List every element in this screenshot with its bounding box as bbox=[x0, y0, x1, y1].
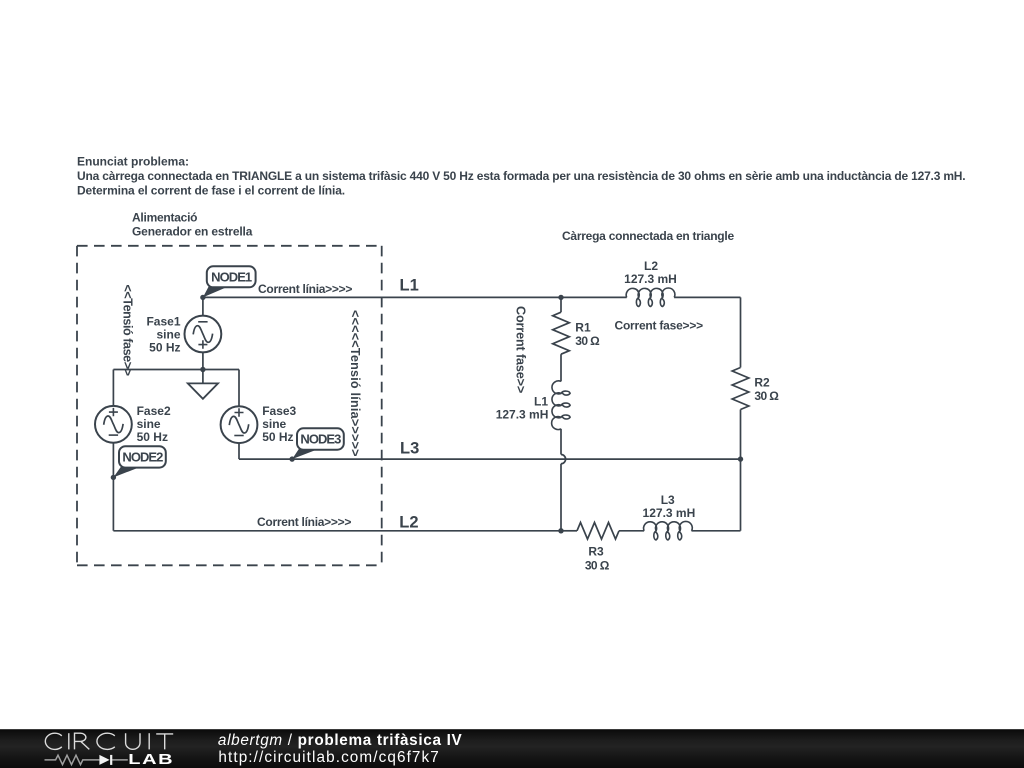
svg-text:Generador en estrella: Generador en estrella bbox=[132, 225, 253, 239]
svg-text:L2: L2 bbox=[399, 514, 418, 532]
svg-text:<<Tensió fase>>: <<Tensió fase>> bbox=[121, 285, 135, 376]
svg-text:Corrent línia>>>>: Corrent línia>>>> bbox=[257, 515, 351, 529]
svg-text:Corrent fase>>: Corrent fase>> bbox=[513, 306, 527, 393]
svg-text:Corrent línia>>>>: Corrent línia>>>> bbox=[258, 282, 352, 296]
svg-text:NODE3: NODE3 bbox=[300, 432, 341, 447]
svg-text:Càrrega connectada en triangle: Càrrega connectada en triangle bbox=[562, 229, 734, 243]
svg-text:127.3 mH: 127.3 mH bbox=[643, 506, 696, 520]
svg-text:50 Hz: 50 Hz bbox=[262, 430, 293, 444]
svg-text:Corrent fase>>>: Corrent fase>>> bbox=[615, 319, 704, 333]
svg-text:sine: sine bbox=[262, 417, 286, 431]
svg-text:L2: L2 bbox=[644, 259, 658, 273]
svg-text:NODE1: NODE1 bbox=[211, 269, 252, 284]
svg-text:30 Ω: 30 Ω bbox=[585, 558, 610, 572]
svg-text:30 Ω: 30 Ω bbox=[575, 334, 600, 348]
svg-text:L1: L1 bbox=[400, 277, 419, 295]
svg-text:Determina el corrent de fase i: Determina el corrent de fase i el corren… bbox=[77, 184, 345, 198]
svg-text:R2: R2 bbox=[754, 375, 770, 389]
svg-text:Alimentació: Alimentació bbox=[132, 211, 197, 225]
svg-text:Enunciat problema:: Enunciat problema: bbox=[77, 155, 189, 169]
svg-text:Fase3: Fase3 bbox=[262, 404, 296, 418]
svg-text:127.3 mH: 127.3 mH bbox=[624, 272, 677, 286]
svg-text:Una càrrega connectada en TRIA: Una càrrega connectada en TRIANGLE a un … bbox=[77, 169, 965, 183]
svg-text:albertgm / problema trifàsica: albertgm / problema trifàsica IV bbox=[218, 732, 463, 749]
svg-text:R1: R1 bbox=[575, 320, 591, 334]
svg-text:LAB: LAB bbox=[128, 751, 174, 768]
svg-text:50 Hz: 50 Hz bbox=[137, 430, 168, 444]
svg-text:http://circuitlab.com/cq6f7k7: http://circuitlab.com/cq6f7k7 bbox=[218, 749, 440, 766]
svg-text:NODE2: NODE2 bbox=[122, 450, 163, 465]
svg-text:<<<<<Tensió línia>>>>>: <<<<<Tensió línia>>>>> bbox=[348, 310, 362, 457]
svg-text:sine: sine bbox=[137, 417, 161, 431]
svg-text:L1: L1 bbox=[534, 394, 548, 408]
svg-text:L3: L3 bbox=[661, 493, 675, 507]
svg-text:30 Ω: 30 Ω bbox=[754, 389, 779, 403]
svg-text:127.3 mH: 127.3 mH bbox=[496, 407, 549, 421]
svg-text:sine: sine bbox=[156, 328, 180, 342]
svg-text:50 Hz: 50 Hz bbox=[149, 340, 180, 354]
svg-text:Fase2: Fase2 bbox=[137, 404, 171, 418]
svg-text:Fase1: Fase1 bbox=[146, 315, 180, 329]
svg-text:R3: R3 bbox=[588, 545, 604, 559]
svg-text:L3: L3 bbox=[400, 439, 419, 457]
